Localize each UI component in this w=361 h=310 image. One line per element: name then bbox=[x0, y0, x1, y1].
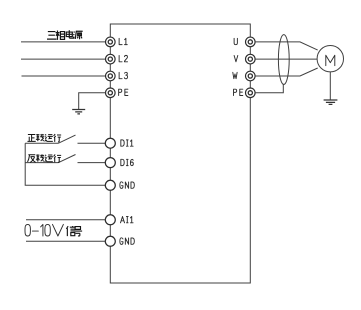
terminal L3 bbox=[106, 71, 116, 81]
label GND1 bbox=[120, 182, 134, 189]
label DI1 bbox=[121, 140, 133, 146]
label DI6 bbox=[121, 159, 133, 165]
ground motor bbox=[324, 100, 338, 104]
label 0-10V bbox=[25, 224, 63, 236]
wire L2 input bbox=[21, 58, 106, 60]
terminal L1 bbox=[106, 37, 116, 47]
terminal AI1 bbox=[105, 215, 115, 225]
terminal GND2 bbox=[105, 236, 115, 246]
wire PE to cable shield bbox=[255, 84, 283, 93]
wire V to motor bbox=[255, 58, 317, 60]
wire motor to earth bbox=[329, 72, 331, 100]
terminal L2 bbox=[106, 54, 116, 64]
switch K2 reverse bbox=[25, 162, 58, 164]
wire U to motor bbox=[255, 42, 318, 50]
label L2 bbox=[119, 55, 127, 61]
wire PE to earth bbox=[79, 93, 106, 110]
terminal GND1 bbox=[105, 180, 115, 190]
label PEr bbox=[234, 89, 243, 95]
wire L1 input bbox=[21, 41, 106, 43]
label V bbox=[234, 56, 238, 62]
terminal W bbox=[246, 71, 256, 81]
terminal U bbox=[246, 37, 256, 47]
wire L3 input bbox=[22, 75, 106, 77]
motor M1 bbox=[317, 46, 343, 72]
label L1 bbox=[119, 38, 127, 44]
terminal PE left bbox=[106, 88, 116, 98]
cable shield ellipse bbox=[278, 35, 289, 85]
wire switch bus bbox=[25, 143, 105, 185]
wire AI1 input bbox=[26, 219, 105, 221]
label AI1 bbox=[121, 217, 134, 223]
switch K1 forward bbox=[25, 142, 58, 144]
terminal DI1 bbox=[105, 138, 115, 148]
label M motor bbox=[326, 55, 335, 65]
terminal PE right bbox=[246, 88, 256, 98]
terminal V bbox=[246, 54, 256, 64]
wire W to motor bbox=[255, 68, 318, 76]
label W bbox=[233, 72, 237, 78]
inverter box U1 bbox=[110, 24, 250, 283]
label U bbox=[234, 38, 237, 44]
label 正转运行 bbox=[27, 134, 61, 142]
wire GND2 input bbox=[26, 240, 105, 242]
label 反转运行 bbox=[28, 154, 62, 162]
label L3 bbox=[119, 72, 127, 79]
terminal DI6 bbox=[105, 158, 115, 168]
label GND2 bbox=[120, 238, 134, 245]
label 信号 bbox=[66, 226, 82, 236]
ground PE left bbox=[72, 110, 85, 114]
label 三相电源 bbox=[47, 30, 83, 40]
label PEl bbox=[119, 89, 128, 95]
